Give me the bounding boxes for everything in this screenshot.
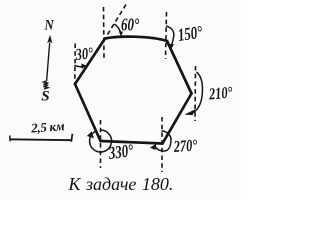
angle arc 60 deg at vertex A [114,24,122,36]
svg-text:N: N [44,17,55,33]
wire side C-D (lower right) [163,94,192,144]
north dashed line at vertex F [74,44,76,85]
wire side B-C (upper right) [167,41,192,94]
svg-text:60°: 60° [121,16,140,36]
svg-text:2,5 км: 2,5 км [30,118,66,135]
north dashed line at vertex C [194,66,197,121]
hexagon route outline [75,37,192,144]
label 330 deg [107,141,135,164]
label N [44,17,55,33]
label 270 deg [172,137,198,157]
label 60 deg [121,16,140,36]
svg-text:150°: 150° [177,23,205,46]
svg-text:К задаче 180.: К задаче 180. [68,174,174,194]
label 150 deg [177,23,205,46]
angle arc 210 deg at vertex C [185,72,202,115]
wire side D-E (bottom) [101,141,163,144]
svg-text:S: S [41,88,49,104]
wire side A-B (top) [105,37,167,41]
svg-text:270°: 270° [172,137,198,157]
compass arrowhead (north tip) [47,35,52,43]
compass tail scribble [43,81,48,89]
north dashed line at vertex A [103,7,106,59]
dashed bearing ray at vertex A [105,5,126,39]
angle arc 30 deg at vertex F [75,64,86,68]
scale bar line [10,138,72,141]
angle arc 270 deg at vertex D [151,131,171,151]
label 210 deg [207,84,233,104]
angle arc 330 deg at vertex E [87,130,111,152]
wire side E-F (lower left) [75,84,101,141]
label 30 deg [74,45,94,65]
angle arc 150 deg at vertex B [166,26,174,49]
scale bar right tick [71,134,72,142]
svg-text:210°: 210° [207,84,233,104]
svg-text:330°: 330° [107,141,135,164]
north dashed line at vertex B [166,12,167,59]
wire side F-A (upper left) [75,39,105,85]
compass needle shaft [47,43,50,82]
svg-text:30°: 30° [74,45,94,65]
scale bar left tick [9,136,12,142]
north dashed line at vertex E [100,120,102,168]
north dashed line at vertex D [161,117,163,172]
